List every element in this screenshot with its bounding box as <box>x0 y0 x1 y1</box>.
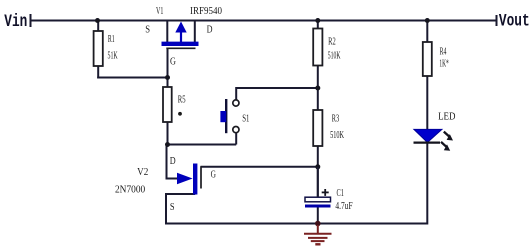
svg-text:C1: C1 <box>337 188 344 199</box>
svg-text:V2: V2 <box>137 167 148 178</box>
svg-text:IRF9540: IRF9540 <box>190 6 222 17</box>
svg-text:510K: 510K <box>328 51 341 62</box>
svg-text:510K: 510K <box>330 130 344 141</box>
svg-text:R2: R2 <box>328 36 336 47</box>
svg-text:Vout: Vout <box>499 11 530 31</box>
svg-text:LED: LED <box>438 112 455 123</box>
svg-text:S1: S1 <box>242 113 249 124</box>
svg-text:D: D <box>170 156 176 167</box>
svg-text:R3: R3 <box>332 113 339 124</box>
svg-text:4.7uF: 4.7uF <box>335 201 353 212</box>
svg-text:D: D <box>207 25 213 36</box>
svg-text:R1: R1 <box>108 34 115 45</box>
svg-text:G: G <box>170 57 176 68</box>
svg-text:S: S <box>170 202 175 213</box>
svg-text:2N7000: 2N7000 <box>115 184 145 195</box>
svg-text:V1: V1 <box>156 6 163 17</box>
svg-text:S: S <box>145 25 150 36</box>
svg-text:Vin: Vin <box>4 12 27 32</box>
svg-text:1K*: 1K* <box>439 58 448 69</box>
svg-text:R4: R4 <box>440 47 447 58</box>
svg-text:R5: R5 <box>178 95 186 106</box>
svg-text:51K: 51K <box>108 50 119 61</box>
svg-text:G: G <box>211 169 216 180</box>
